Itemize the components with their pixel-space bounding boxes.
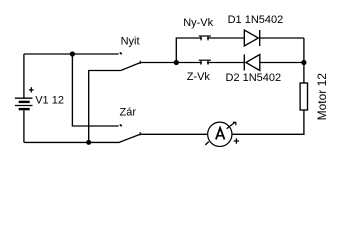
wire: Ny-Vk to D1 anode (207, 37, 244, 39)
wire: battery positive lead (23, 54, 25, 98)
wire bottom: battery minus to Zar blade (24, 141, 120, 143)
wire top: battery plus to Nyit fixed contact (24, 53, 119, 55)
wire: node A down and right to Zar fixed contact (72, 54, 118, 126)
wire: Z-Vk to D2 cathode (207, 62, 244, 64)
ammeter plus sign (234, 138, 239, 143)
Nyit blade pivot tick (139, 61, 141, 64)
switch Zar blade (120, 135, 140, 143)
svg-text:Z-Vk: Z-Vk (187, 71, 211, 83)
wire: right rail vertical top (303, 38, 305, 63)
svg-text:Nyit: Nyit (121, 35, 140, 47)
Nyit fixed contact mark (120, 52, 122, 54)
contact Z-Vk (199, 60, 211, 65)
svg-text:D2 1N5402: D2 1N5402 (226, 72, 282, 84)
wire: D2 anode to node C (260, 62, 304, 64)
ammeter arrow head (227, 122, 237, 129)
diode D2 (244, 55, 259, 71)
diode D1 (244, 30, 259, 46)
contact Ny-Vk (199, 36, 211, 40)
ammeter arrow tail (205, 142, 209, 145)
svg-text:D1 1N5402: D1 1N5402 (228, 14, 284, 26)
wire: node C down to motor (303, 63, 305, 84)
node D junction dot (86, 140, 91, 145)
svg-text:Zár: Zár (120, 107, 137, 119)
wire: node B to Z-Vk contact (176, 62, 201, 64)
switch Nyit blade (120, 63, 139, 71)
motor body (resistor rectangle) (300, 83, 307, 110)
wire: node B up to Ny-Vk branch (176, 38, 201, 63)
Zar fixed contact mark (120, 124, 122, 126)
svg-text:Ny-Vk: Ny-Vk (183, 17, 213, 29)
ammeter A1 circle (208, 122, 232, 146)
ammeter letter A (216, 128, 225, 139)
node C junction dot (301, 60, 306, 65)
battery V1 plates (15, 98, 33, 110)
Zar blade pivot tick (139, 132, 141, 135)
svg-text:Motor 12: Motor 12 (315, 73, 329, 121)
wire: D1 cathode to right rail (260, 37, 304, 39)
wire: battery negative lead (23, 110, 25, 142)
wire: Nyit blade to node B (141, 62, 176, 64)
battery plus sign (29, 87, 34, 92)
node B junction dot (174, 60, 179, 65)
wire: motor bottom to ammeter right (232, 110, 304, 134)
node A junction dot (70, 51, 75, 56)
wire: ammeter left to Zar blade (141, 133, 208, 135)
svg-text:V1 12: V1 12 (35, 95, 64, 107)
wire: bottom node up and right to Nyit blade (89, 71, 121, 143)
